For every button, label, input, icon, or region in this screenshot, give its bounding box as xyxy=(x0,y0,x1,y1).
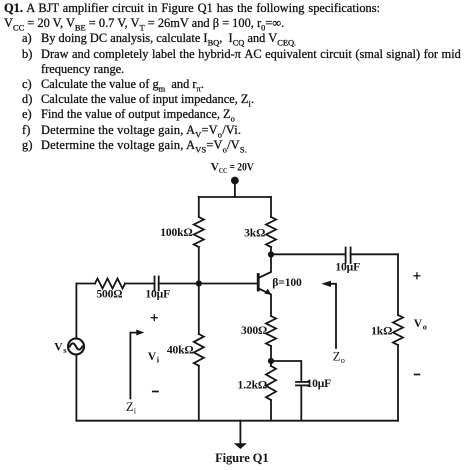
svg-text:o: o xyxy=(341,356,345,365)
svg-text:o: o xyxy=(423,323,427,332)
svg-text:i: i xyxy=(134,407,137,416)
svg-text:300Ω: 300Ω xyxy=(241,324,267,337)
svg-text:10μF: 10μF xyxy=(306,377,331,390)
svg-text:10μF: 10μF xyxy=(335,260,360,273)
svg-text:Z: Z xyxy=(126,400,134,414)
svg-text:V: V xyxy=(414,317,423,330)
svg-text:β=100: β=100 xyxy=(272,276,302,289)
svg-text:V: V xyxy=(54,340,63,353)
svg-text:3kΩ: 3kΩ xyxy=(244,226,265,239)
svg-text:40kΩ: 40kΩ xyxy=(167,343,194,356)
svg-text:V: V xyxy=(148,350,157,363)
svg-text:1.2kΩ: 1.2kΩ xyxy=(238,379,267,392)
svg-text:10μF: 10μF xyxy=(145,288,170,301)
svg-text:CC: CC xyxy=(219,167,227,175)
svg-text:= 20V: = 20V xyxy=(229,160,254,173)
svg-text:s: s xyxy=(63,346,67,355)
svg-text:Z: Z xyxy=(333,349,341,363)
svg-text:i: i xyxy=(157,355,160,364)
svg-text:100kΩ: 100kΩ xyxy=(160,226,192,239)
svg-text:1kΩ: 1kΩ xyxy=(371,324,392,337)
svg-text:Figure Q1: Figure Q1 xyxy=(215,451,268,465)
svg-text:500Ω: 500Ω xyxy=(96,288,122,301)
